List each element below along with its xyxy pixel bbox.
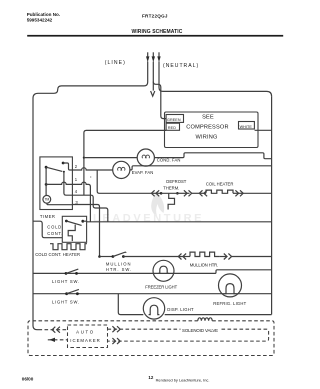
mullion heater element: [190, 252, 219, 256]
condenser fan motor: [137, 149, 154, 166]
stray dot: [90, 176, 91, 177]
svg-text:Publication No.: Publication No.: [27, 12, 60, 17]
cold control capillary: [68, 225, 75, 242]
terminal box GREEN: [166, 115, 183, 123]
wire: bus to icemaker (dashed): [39, 329, 68, 331]
svg-text:12: 12: [148, 375, 153, 380]
svg-text:5995342242: 5995342242: [27, 18, 53, 23]
wire: left bus to cold control: [33, 221, 62, 238]
wire: evaporator fan to neutral bus: [130, 166, 272, 170]
cold control box: [62, 216, 86, 242]
connector (left of icemaker): [52, 327, 60, 333]
watermark flame logo: [151, 191, 164, 216]
svg-text:GREEN: GREEN: [167, 118, 181, 122]
wire: switch to mullion heater: [123, 256, 181, 258]
cold control output rail to neutral bus: [83, 220, 272, 223]
svg-text:FREEZER LIGHT: FREEZER LIGHT: [145, 285, 177, 290]
label solenoid valve: [181, 327, 221, 333]
icemaker output loop (dashed): [108, 329, 269, 341]
timer wire motor to terminal 3: [47, 203, 73, 205]
header rule: [27, 35, 283, 37]
icemaker stub connector: [48, 338, 68, 342]
wire: tap to condenser fan: [84, 157, 137, 159]
wire: ground prong stem: [152, 62, 154, 91]
timer lever B-C: [46, 167, 62, 171]
power plug prong neutral: [157, 52, 160, 62]
connector pair (right of coil heater): [233, 190, 243, 196]
cold control lever: [66, 221, 81, 225]
timer contact A: [62, 162, 65, 165]
svg-text:THERM.: THERM.: [163, 185, 179, 190]
icemaker harness boundary (dashed): [28, 321, 274, 356]
timer contact D: [45, 183, 48, 186]
connector pair (right of mullion heater): [219, 254, 231, 260]
wire: terminal 3 to mullion heater line: [72, 205, 99, 257]
wire: mullion heater to neutral bus: [232, 256, 272, 258]
timer contact B: [45, 166, 48, 169]
timer wire A to terminal 2: [63, 163, 72, 170]
wire: neutral prong to right bus: [159, 62, 272, 97]
svg-text:WIRING SCHEMATIC: WIRING SCHEMATIC: [132, 29, 183, 35]
terminal box WHITE: [239, 122, 255, 130]
svg-text:MULLION: MULLION: [106, 262, 132, 267]
svg-text:DEFROST: DEFROST: [166, 179, 186, 184]
freezer light rail: [33, 270, 272, 274]
svg-text:FRT22QGJ: FRT22QGJ: [142, 14, 168, 19]
mullion heater switch: [112, 252, 127, 258]
connector pair (left of mullion heater): [178, 254, 190, 260]
svg-text:HTR. SW.: HTR. SW.: [106, 267, 132, 272]
wire: line prong to left bus: [38, 62, 148, 94]
timer box: [40, 157, 73, 210]
power plug prong line: [146, 52, 149, 62]
dispenser light lamp: [143, 298, 164, 319]
refrigerator light rail: [33, 293, 272, 295]
connector (icemaker output 1): [112, 326, 120, 332]
wire: mullion heater line: [100, 256, 113, 258]
svg-text:(NEUTRAL): (NEUTRAL): [163, 63, 199, 69]
cold control heater element: [50, 244, 87, 250]
svg-text:WHITE: WHITE: [240, 125, 253, 129]
wire: condenser fan to neutral bus: [154, 153, 271, 159]
cold control contact left: [65, 220, 68, 223]
node: mullion line junction: [98, 255, 101, 258]
label SEE COMPRESSOR WIRING: [186, 115, 228, 141]
connector (icemaker output 2): [112, 338, 120, 344]
svg-text:SEE: SEE: [202, 115, 214, 121]
left line bus: [33, 93, 39, 329]
wire: coil heater to neutral bus: [243, 192, 271, 194]
connector pair (left of coil heater): [199, 190, 207, 196]
terminal box RED: [166, 123, 179, 130]
evaporator fan motor: [113, 161, 130, 178]
freezer light switch: [65, 269, 79, 275]
svg-text:COIL HEATER: COIL HEATER: [206, 182, 233, 187]
defrost thermostat: [160, 192, 179, 210]
svg-text:ICEMAKER: ICEMAKER: [70, 338, 100, 343]
svg-text:MULLION HTR.: MULLION HTR.: [190, 262, 218, 267]
timer wire D to motor: [45, 184, 47, 195]
svg-text:LIGHT SW.: LIGHT SW.: [52, 279, 80, 284]
connector pair (left of defrost thermostat): [151, 190, 161, 196]
svg-text:CONT.: CONT.: [47, 231, 63, 236]
wire: dispenser light to neutral bus: [165, 314, 272, 316]
freezer light lamp: [153, 260, 174, 281]
svg-text:COLD: COLD: [47, 225, 62, 230]
power plug prong ground: [152, 52, 155, 62]
wire: ground prong to green terminal: [153, 82, 166, 119]
refrigerator light lamp: [219, 274, 242, 297]
svg-text:06/00: 06/00: [22, 377, 34, 382]
wire: white to neutral bus: [255, 129, 272, 131]
timer contact C: [63, 171, 65, 173]
wire: red lead to timer terminal 4 node: [84, 130, 166, 195]
svg-text:REFRIG. LIGHT: REFRIG. LIGHT: [213, 301, 246, 306]
svg-text:LEADVENTURE: LEADVENTURE: [93, 213, 204, 225]
svg-text:COMPRESSOR: COMPRESSOR: [186, 125, 228, 131]
wire: dispenser light drop: [118, 294, 143, 315]
timer motor TM: [43, 195, 51, 203]
wire: terminal 1 drop to cold control rail (hop): [72, 182, 90, 222]
node: condenser fan tap: [83, 157, 85, 159]
svg-text:SOLENOID VALVE: SOLENOID VALVE: [182, 328, 218, 333]
svg-text:EVAP. FAN: EVAP. FAN: [132, 170, 154, 175]
wire: terminal 2 to evaporator fan (hop): [72, 168, 112, 170]
wire: terminal 4 jog to cold control rail: [72, 195, 107, 222]
connector pair (right of defrost thermostat): [177, 190, 191, 196]
svg-text:DISP. LIGHT: DISP. LIGHT: [167, 307, 194, 312]
solenoid valve coil: [198, 318, 212, 321]
right neutral bus: [271, 96, 273, 314]
svg-text:COLD CONT. HEATER: COLD CONT. HEATER: [35, 252, 80, 257]
ground arrow symbol: [151, 91, 155, 96]
svg-text:COND. FAN: COND. FAN: [157, 158, 181, 163]
svg-text:Rendered by LeadVenture, Inc.: Rendered by LeadVenture, Inc.: [156, 377, 210, 382]
svg-text:RED: RED: [168, 126, 176, 130]
timer wire C to terminal 4: [64, 172, 73, 195]
svg-text:WIRING: WIRING: [195, 134, 217, 140]
wire to coil heater: [192, 192, 200, 194]
auto icemaker box (dashed): [68, 325, 108, 348]
svg-text:TM: TM: [45, 198, 50, 202]
compressor box U1: [165, 112, 259, 148]
wire: defrost feed drop: [97, 170, 151, 193]
timer wire D to terminal 1 (hop over C drop): [46, 182, 72, 184]
svg-text:(LINE): (LINE): [105, 60, 126, 66]
svg-text:AUTO: AUTO: [76, 330, 95, 335]
refrigerator light switch: [65, 289, 79, 295]
timer wire B to D: [45, 167, 47, 184]
cold control contact right: [81, 220, 84, 223]
coil heater element: [206, 190, 233, 193]
svg-text:TIMER: TIMER: [40, 214, 56, 219]
svg-text:LIGHT SW.: LIGHT SW.: [52, 300, 80, 305]
